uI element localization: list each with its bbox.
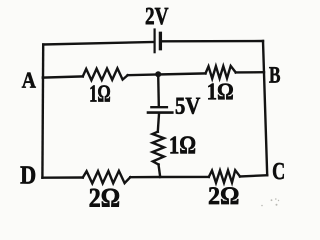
battery V1 2V long plate xyxy=(154,30,156,53)
wire R3 to bottom xyxy=(159,165,161,178)
battery V1 2V short plate xyxy=(159,33,162,48)
resistor R4 2ohm bottom-left xyxy=(83,171,131,184)
wire node down to battery V2 xyxy=(157,75,160,106)
wire node to R2 xyxy=(158,73,206,74)
wire left edge A-D xyxy=(41,45,44,178)
node A label xyxy=(22,73,36,88)
wire R5 to C xyxy=(240,175,267,176)
battery V2 5V short plate xyxy=(151,106,167,108)
node B label xyxy=(269,67,280,82)
node C label xyxy=(273,163,284,179)
resistor R2 1ohm right xyxy=(206,66,236,79)
wire A to R1 xyxy=(43,76,83,77)
label 1 ohm vertical xyxy=(171,137,196,154)
resistor R1 1ohm left xyxy=(83,68,128,80)
label 2 ohm bottom-left xyxy=(90,189,119,207)
battery V2 5V long plate xyxy=(148,111,172,114)
label 5V xyxy=(176,98,200,114)
wire R4 to R5 xyxy=(130,176,209,179)
label 2 ohm bottom-right xyxy=(209,187,238,204)
node junction dot xyxy=(155,71,161,77)
resistor R3 1ohm vertical xyxy=(153,132,165,165)
label 1 ohm left xyxy=(90,85,110,101)
wire top-right segment xyxy=(161,40,263,43)
wire D to R4 xyxy=(42,176,82,179)
node D label xyxy=(21,166,36,183)
wire V2 to R3 xyxy=(158,114,159,132)
wire right edge B-C xyxy=(263,41,267,175)
wire R2 to B xyxy=(236,71,264,74)
wire R1 to node xyxy=(128,73,158,76)
label 1 ohm right xyxy=(208,84,232,100)
label 2V xyxy=(146,8,169,25)
resistor R5 2ohm bottom-right xyxy=(209,170,240,183)
wire top-left segment xyxy=(43,42,154,45)
scan speckle xyxy=(261,198,279,206)
